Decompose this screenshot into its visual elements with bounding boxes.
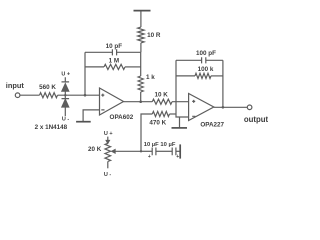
wire: U2 output to terminal (214, 106, 248, 108)
svg-text:output: output (244, 115, 269, 124)
node: feedback rail joins + input wire (84, 94, 87, 97)
svg-text:2 x 1N4148: 2 x 1N4148 (35, 124, 68, 131)
resistor 1 k (138, 76, 143, 92)
svg-text:10 µF: 10 µF (144, 142, 159, 148)
op-amp U2 OPA227 (189, 94, 214, 121)
resistor 10 R to supply bar (140, 43, 142, 52)
svg-text:10 µF: 10 µF (160, 142, 175, 148)
wire: 560K to op-amp U1 + input (58, 94, 100, 96)
wire: U1 output node (124, 101, 153, 103)
svg-text:100 pF: 100 pF (196, 50, 216, 57)
svg-text:10 R: 10 R (147, 32, 161, 39)
svg-text:560 K: 560 K (39, 84, 56, 91)
capacitor 10 uF (left) (152, 148, 156, 156)
wire: caps to termination bar (176, 150, 180, 152)
resistor 470 K (152, 111, 169, 116)
wire: feedback left rail (84, 52, 86, 95)
capacitor 10 pF feedback (85, 51, 141, 53)
svg-text:1 k: 1 k (146, 74, 155, 81)
node: diode clamp junction (64, 94, 66, 96)
wire: feedback rail U2 down to - input (176, 60, 189, 117)
wire: U1 - input to ground (83, 110, 99, 121)
wire: input terminal to 560K (15, 93, 20, 98)
svg-text:U +: U + (61, 71, 70, 77)
svg-text:+: + (148, 154, 151, 160)
diode D1 to U+ (64, 91, 66, 95)
capacitor 100 pF feedback U2 (176, 59, 223, 61)
ground (U1) (76, 121, 91, 123)
svg-text:100 k: 100 k (198, 66, 214, 73)
svg-text:U +: U + (104, 131, 113, 137)
wire: - input to ground stem (179, 117, 181, 127)
wire: feedback right rail (140, 52, 142, 76)
svg-text:20 K: 20 K (88, 146, 102, 153)
svg-text:OPA602: OPA602 (110, 114, 134, 121)
svg-text:input: input (6, 81, 25, 90)
pot wiper arrow (114, 150, 142, 152)
wire: pot wiper riser to 470K (141, 114, 152, 151)
op-amp U1 OPA602 (100, 88, 124, 115)
svg-text:+: + (176, 154, 179, 160)
wire: wiper to caps (141, 150, 152, 152)
svg-text:10 pF: 10 pF (106, 43, 123, 50)
svg-text:1 M: 1 M (109, 57, 120, 64)
svg-text:U -: U - (62, 117, 70, 123)
wire: feedback right rail to output (222, 60, 224, 107)
svg-text:470 K: 470 K (149, 119, 166, 126)
resistor 10 K (152, 99, 172, 104)
svg-text:OPA227: OPA227 (200, 122, 224, 129)
wire between caps (156, 150, 172, 152)
wire: 10K to U2 + input (172, 101, 189, 103)
resistor 100 k feedback U2 (176, 75, 195, 77)
svg-text:10 K: 10 K (155, 91, 169, 98)
resistor 1 M feedback (85, 66, 104, 68)
svg-text:U -: U - (104, 172, 112, 178)
ground (U2) (172, 127, 188, 129)
resistor 560 K (40, 93, 58, 98)
capacitor 10 uF (right) (172, 148, 176, 156)
diode D2 to U- (62, 95, 70, 98)
